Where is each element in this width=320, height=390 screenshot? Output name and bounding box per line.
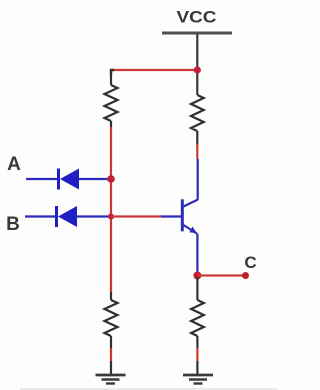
svg-text:A: A bbox=[7, 154, 21, 175]
svg-text:B: B bbox=[6, 214, 20, 235]
svg-text:VCC: VCC bbox=[177, 8, 217, 27]
svg-text:C: C bbox=[244, 253, 256, 272]
